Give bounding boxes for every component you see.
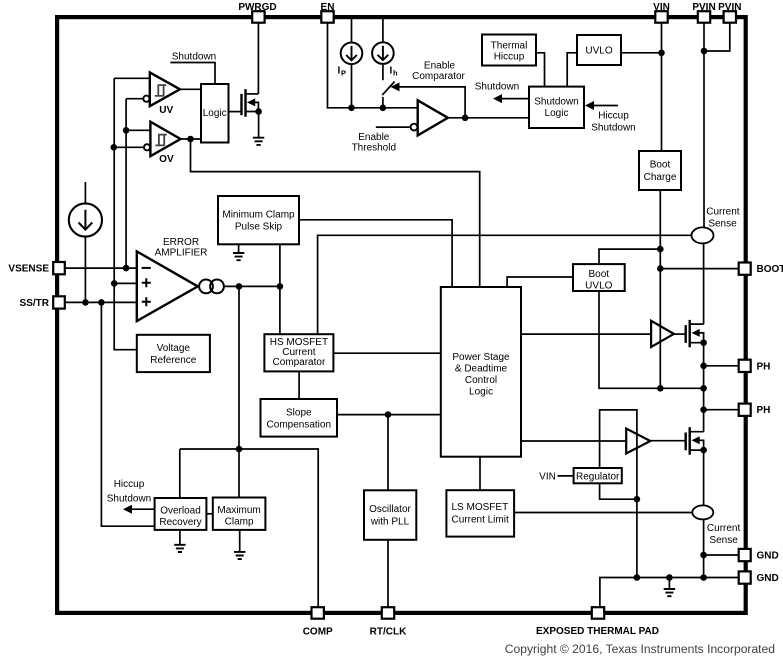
transistor PWRGD pull-down FET: [242, 89, 259, 117]
node EA output junction clamp: [277, 283, 284, 290]
current source SS/TR charge: [69, 203, 102, 236]
comparator Enable: [418, 100, 448, 135]
wire UV inverting input: [126, 98, 143, 100]
wire Minimum Clamp to power stage top: [299, 220, 452, 287]
wire power stage to HS driver: [521, 333, 651, 335]
wire Boot UVLO bottom around to PH node: [599, 291, 704, 388]
ground under PWRGD FET: [253, 138, 264, 145]
svg-text:AMPLIFIER: AMPLIFIER: [155, 248, 208, 259]
svg-text:Hiccup: Hiccup: [494, 52, 525, 63]
node boot/Boot UVLO junction: [657, 246, 664, 253]
node GND2 junction ground symbol: [666, 574, 673, 581]
pin COMP: [312, 607, 324, 619]
wire EA output down to clamps and COMP: [238, 286, 240, 497]
node BOOT junction: [657, 265, 664, 272]
node PH2 junction: [700, 406, 707, 413]
node PH1 junction: [700, 363, 707, 370]
svg-text:Sense: Sense: [709, 535, 738, 546]
wire power stage to LS driver: [521, 440, 626, 442]
pin SS/TR: [53, 296, 65, 308]
wire comparator feedback to Ih switch: [398, 87, 466, 118]
wire regulator rail loop bottom: [600, 483, 637, 499]
wire VIN to regulator: [558, 475, 574, 477]
pin PH 1: [739, 360, 751, 372]
svg-text:RT/CLK: RT/CLK: [370, 627, 407, 638]
box Thermal Hiccup: [482, 35, 536, 66]
pin VIN: [655, 11, 667, 23]
comparator OV: [150, 122, 180, 157]
svg-text:Shutdown: Shutdown: [107, 494, 151, 505]
transistor LS MOSFET Q2: [686, 427, 704, 454]
wire HS comparator to slope compensation: [298, 371, 300, 399]
wire OV top input: [126, 129, 150, 131]
svg-text:VIN: VIN: [539, 471, 556, 482]
node EA output junction COMP: [236, 283, 243, 290]
node Ip junction: [348, 105, 355, 112]
svg-text:Current: Current: [706, 207, 740, 218]
arrowhead feedback to switch: [391, 82, 400, 91]
svg-text:Control: Control: [465, 375, 497, 386]
svg-text:Maximum: Maximum: [217, 505, 260, 516]
comparator UV: [150, 72, 180, 106]
wire LS driver tip to gate: [650, 440, 685, 442]
logic box U1: [201, 84, 229, 143]
svg-text:Enable: Enable: [358, 132, 390, 143]
wire comparator output to Shutdown Logic: [448, 117, 529, 119]
svg-text:LS MOSFET: LS MOSFET: [452, 502, 509, 513]
pin GND 1: [739, 549, 751, 561]
svg-text:GND: GND: [757, 573, 779, 584]
svg-text:Enable: Enable: [424, 60, 456, 71]
wire UV output to Logic: [180, 88, 201, 90]
node minus sign: [142, 267, 151, 269]
wire boot net to Boot UVLO: [599, 249, 660, 264]
hysteresis glyph UV: [155, 85, 166, 96]
wire LS current limit to current sense: [514, 512, 693, 514]
svg-text:COMP: COMP: [303, 627, 333, 638]
svg-text:Logic: Logic: [469, 387, 493, 398]
svg-text:BOOT: BOOT: [757, 264, 783, 275]
svg-text:Current: Current: [707, 523, 741, 534]
wire Boot Charge down to boot net and HS driver rail: [659, 190, 661, 388]
node HS FET source junction: [700, 339, 707, 346]
svg-text:Recovery: Recovery: [159, 517, 201, 528]
svg-text:Compensation: Compensation: [267, 419, 331, 430]
wire SS/TR net: [64, 301, 137, 303]
wire OV inverting input: [114, 146, 144, 148]
svg-text:EN: EN: [321, 2, 335, 13]
transistor HS MOSFET Q1: [686, 320, 704, 347]
node SS/TR overload branch junction: [98, 299, 105, 306]
wire current source to SS/TR net: [84, 237, 86, 303]
wire power stage to LS current limit: [479, 457, 481, 491]
node junction line B / OV top: [123, 127, 130, 134]
switch blade under Ih: [382, 82, 394, 96]
wire between overload and maximum clamp: [206, 513, 212, 515]
op-amp error amplifier: [137, 251, 198, 321]
node COMP junction: [236, 446, 243, 453]
wire overload recovery branch: [179, 449, 181, 498]
EA output gm circles: [199, 280, 213, 294]
svg-text:Hiccup: Hiccup: [598, 110, 629, 121]
box Boot Charge: [639, 151, 681, 190]
hysteresis glyph OV: [155, 135, 166, 146]
pin PH 2: [739, 404, 751, 416]
bubble OV input: [144, 144, 150, 150]
svg-text:Shutdown: Shutdown: [591, 122, 635, 133]
svg-text:Oscillator: Oscillator: [369, 504, 411, 515]
node regulator rail junction: [634, 496, 641, 503]
node SS/TR current source junction: [82, 299, 89, 306]
wire Shutdown label underline into Logic: [170, 63, 215, 85]
node UVLO/VIN junction: [658, 50, 665, 57]
box Overload Recovery: [155, 498, 207, 530]
box Regulator: [574, 468, 622, 483]
wire current sense to HS comparator: [318, 235, 693, 334]
box Shutdown Logic: [529, 87, 584, 128]
wire UVLO to VIN rail: [621, 52, 662, 54]
wire oscillator to RT/CLK pin: [387, 540, 389, 608]
svg-text:Threshold: Threshold: [352, 143, 396, 154]
node HS driver rail junction: [657, 385, 664, 392]
wire PH net vertical: [703, 343, 705, 432]
wire oscillator to slope junction: [387, 415, 389, 491]
svg-text:GND: GND: [757, 551, 779, 562]
node Ih junction: [380, 105, 387, 112]
wire hiccup shutdown arrow (overload): [129, 508, 155, 510]
svg-text:PWRGD: PWRGD: [238, 2, 276, 13]
wire ground symbol stem: [668, 578, 670, 590]
node comparator output junction: [462, 115, 469, 122]
wire Hiccup Shutdown input arrow: [591, 105, 618, 107]
node plus sign 2: [142, 297, 151, 306]
pin RT/CLK: [382, 607, 394, 619]
box UVLO: [577, 35, 621, 65]
pin PWRGD: [252, 11, 264, 23]
bubble UV input: [143, 96, 149, 102]
wire Ip to enable rail: [351, 64, 353, 108]
wire Thermal Hiccup to Shutdown Logic: [536, 53, 545, 87]
svg-text:Logic: Logic: [203, 108, 227, 119]
svg-text:Charge: Charge: [644, 172, 677, 183]
wire reference line A (UV top, OV bubble, EA+, Vref): [114, 78, 137, 349]
wire regulator rail to GND net: [636, 499, 638, 577]
wire vsense line B (UV bubble, OV top, VSENSE): [125, 99, 127, 268]
svg-text:Pulse Skip: Pulse Skip: [235, 222, 283, 233]
box Slope Compensation: [261, 399, 338, 437]
svg-text:Comparator: Comparator: [412, 71, 465, 82]
wire Minimum Clamp down to EA output and HS comparator: [279, 244, 281, 334]
wire power stage top to Boot UVLO: [507, 277, 573, 288]
amplifier HS gate driver: [651, 321, 674, 347]
amplifier LS gate driver: [626, 429, 650, 454]
ground under Minimum Clamp: [233, 253, 244, 260]
wire PWRGD net vertical: [257, 23, 259, 94]
svg-text:ERROR: ERROR: [163, 237, 199, 248]
svg-text:PVIN: PVIN: [718, 2, 741, 13]
node GND1 junction: [700, 552, 707, 559]
svg-text:PH: PH: [757, 361, 771, 372]
wire UVLO to Shutdown Logic: [567, 53, 577, 87]
wire Enable Threshold input: [376, 126, 411, 128]
wire Shutdown output arrow: [500, 98, 529, 100]
svg-text:PVIN: PVIN: [692, 2, 715, 13]
wire SS/TR down to Overload Recovery: [101, 302, 154, 526]
svg-text:VSENSE: VSENSE: [8, 264, 49, 275]
svg-text:Regulator: Regulator: [576, 471, 620, 482]
svg-text:Slope: Slope: [286, 407, 312, 418]
wire OV output to Logic: [181, 138, 202, 140]
wire GND pin 1: [704, 554, 739, 556]
svg-text:PH: PH: [757, 405, 771, 416]
pin VSENSE: [53, 262, 65, 274]
wire Logic to PWRGD FET gate: [229, 111, 241, 113]
wire regulator rail loop top: [600, 410, 637, 499]
wire VIN rail to Boot Charge: [661, 23, 663, 151]
box Boot UVLO: [573, 264, 625, 291]
wire HS comparator output to power stage: [333, 352, 440, 354]
node GND2 junction regulator: [634, 574, 641, 581]
wire second PVIN joins first: [704, 23, 730, 51]
wire EN vertical and enable rail: [328, 23, 418, 108]
svg-text:Reference: Reference: [150, 355, 197, 366]
svg-text:UV: UV: [159, 105, 173, 116]
svg-text:P: P: [341, 69, 346, 78]
pin BOOT: [739, 263, 751, 275]
wire HS driver tip to gate: [674, 333, 686, 335]
current source Ih: [372, 42, 394, 64]
wire boot net to BOOT pin: [660, 268, 738, 270]
node slope/oscillator junction: [385, 411, 392, 418]
bubble enable threshold input: [411, 124, 418, 131]
svg-text:Thermal: Thermal: [491, 40, 528, 51]
box Voltage Reference: [137, 335, 210, 372]
pin PVIN 1: [698, 11, 710, 23]
node OV output junction: [187, 136, 194, 143]
svg-text:EXPOSED THERMAL PAD: EXPOSED THERMAL PAD: [536, 626, 659, 637]
pin GND 2: [739, 571, 751, 583]
box Oscillator with PLL: [364, 490, 416, 540]
box Minimum Clamp Pulse Skip: [218, 196, 299, 244]
svg-text:with PLL: with PLL: [370, 517, 410, 528]
pin EXPOSED THERMAL PAD: [592, 607, 604, 619]
current source SS/TR charge stub: [84, 182, 86, 203]
wire current sense to GND nets: [703, 519, 705, 577]
current sense LS (ellipse): [692, 505, 713, 519]
pin EN: [321, 11, 333, 23]
wire VSENSE net: [64, 267, 137, 269]
svg-text:SS/TR: SS/TR: [20, 298, 50, 309]
svg-text:Current Limit: Current Limit: [452, 514, 509, 525]
box LS MOSFET Current Limit: [446, 490, 514, 536]
svg-text:Boot: Boot: [589, 269, 610, 280]
wire COMP branch: [180, 449, 318, 608]
current sense HS (ellipse): [692, 227, 714, 243]
wire overload ground stem: [179, 530, 181, 545]
node plus sign 1: [142, 278, 151, 287]
wire PH pin 2: [704, 409, 739, 411]
node GND2 junction rail: [700, 574, 707, 581]
box Maximum Clamp: [213, 498, 266, 530]
wire switch to enable rail: [382, 97, 384, 108]
node junction line B / VSENSE: [123, 265, 130, 272]
svg-text:Voltage: Voltage: [157, 343, 191, 354]
svg-text:VIN: VIN: [653, 2, 670, 13]
box Power Stage and Deadtime Control Logic: [441, 287, 521, 457]
wire GND net 2 to thermal pad: [600, 578, 739, 609]
chip outline border: [57, 17, 746, 613]
svg-text:Shutdown: Shutdown: [172, 52, 216, 63]
svg-text:UVLO: UVLO: [585, 281, 612, 292]
node PVIN junction: [701, 48, 708, 55]
wire UV top input: [114, 77, 150, 79]
svg-text:Hiccup: Hiccup: [114, 479, 145, 490]
wire LS FET source to current sense: [703, 450, 705, 505]
node LS FET source junction: [700, 447, 707, 454]
svg-text:UVLO: UVLO: [585, 46, 612, 57]
svg-text:Power Stage: Power Stage: [452, 352, 510, 363]
current source Ip: [341, 43, 363, 65]
current source Ih stub: [382, 19, 384, 43]
svg-text:Shutdown: Shutdown: [534, 97, 578, 108]
wire PVIN rail: [703, 23, 705, 228]
svg-text:Sense: Sense: [708, 219, 737, 230]
wire current sense to HS FET drain: [703, 243, 705, 324]
wire Minimum Clamp ground stem: [238, 244, 240, 253]
node PWRGD FET source junction: [255, 108, 262, 115]
svg-text:& Deadtime: & Deadtime: [455, 364, 508, 375]
wire maximum clamp ground stem: [239, 530, 241, 552]
box HS MOSFET Current Comparator: [264, 334, 333, 371]
wire slope compensation to power stage: [337, 414, 441, 416]
svg-text:Comparator: Comparator: [272, 357, 325, 368]
svg-text:Logic: Logic: [545, 108, 569, 119]
wire EA plus1 input: [114, 282, 137, 284]
current source Ip stub: [351, 19, 353, 44]
svg-text:Overload: Overload: [160, 505, 201, 516]
node junction line A / OV bubble: [111, 144, 118, 151]
wire Ih to switch: [382, 64, 384, 80]
svg-text:Shutdown: Shutdown: [475, 81, 519, 92]
pin PVIN 2: [724, 11, 736, 23]
svg-text:Minimum Clamp: Minimum Clamp: [222, 210, 295, 221]
svg-text:Boot: Boot: [650, 160, 671, 171]
svg-text:h: h: [393, 69, 398, 78]
wire FET source to ground: [258, 112, 260, 138]
wire PH pin 1: [704, 365, 739, 367]
node junction line A / EA plus input: [111, 280, 118, 287]
ground GND net: [664, 589, 675, 596]
wire EA output: [224, 285, 280, 287]
svg-text:Clamp: Clamp: [225, 516, 254, 527]
node PH net junction at 388: [700, 385, 707, 392]
svg-text:OV: OV: [159, 154, 174, 165]
ground under Maximum Clamp: [234, 552, 245, 559]
wire OV output down to power stage: [191, 139, 480, 287]
ground under Overload Recovery: [174, 545, 185, 552]
svg-text:Copyright © 2016, Texas Instru: Copyright © 2016, Texas Instruments Inco…: [505, 642, 775, 656]
